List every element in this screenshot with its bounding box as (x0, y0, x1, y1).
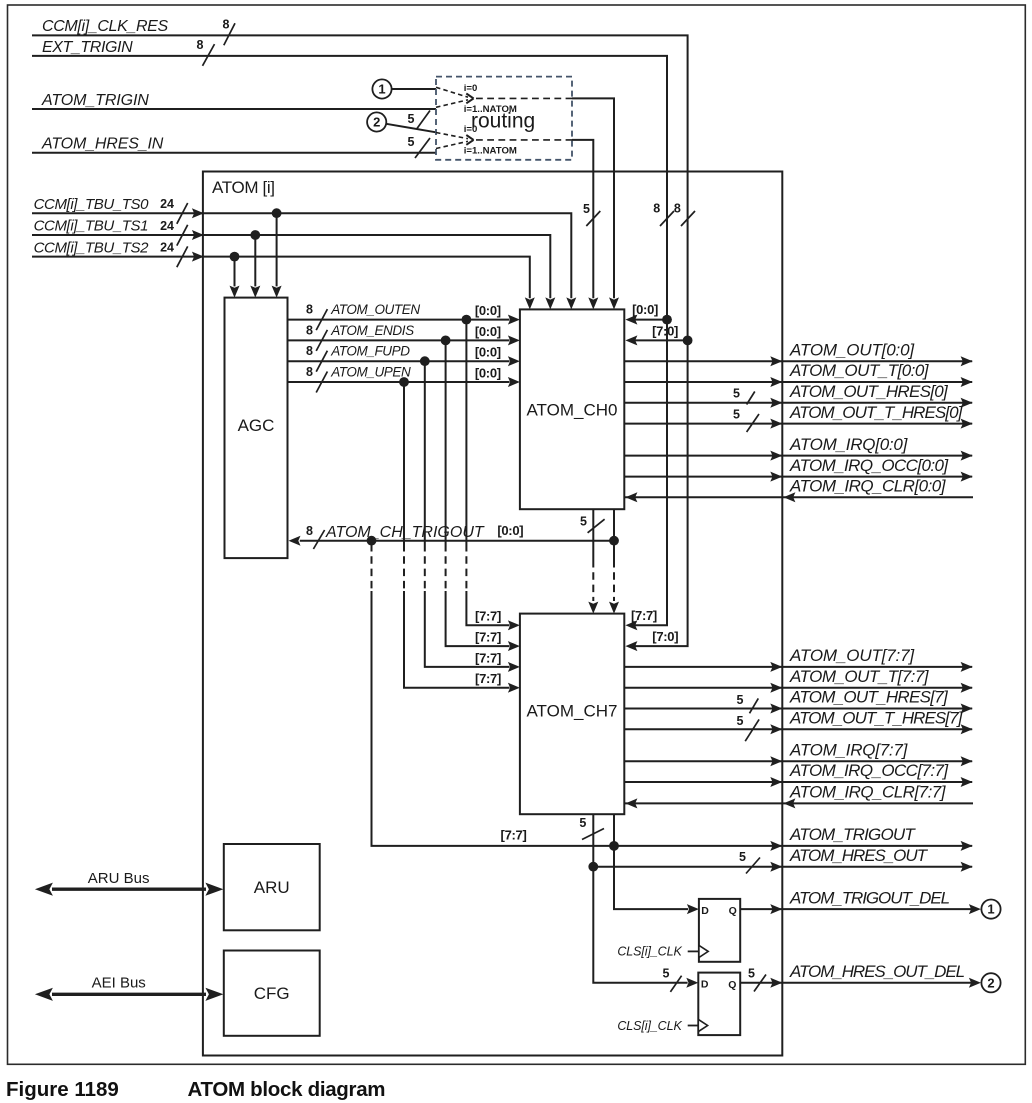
svg-text:ATOM_IRQ_CLR[7:7]: ATOM_IRQ_CLR[7:7] (789, 783, 947, 802)
svg-text:ATOM_OUT_T[7:7]: ATOM_OUT_T[7:7] (789, 667, 930, 686)
svg-text:[7:7]: [7:7] (631, 608, 657, 623)
svg-text:ATOM_IRQ[7:7]: ATOM_IRQ[7:7] (789, 740, 909, 759)
svg-text:ARU: ARU (254, 878, 290, 897)
svg-text:5: 5 (583, 202, 590, 216)
svg-text:ATOM_OUT_T_HRES[0]: ATOM_OUT_T_HRES[0] (789, 403, 964, 422)
svg-text:i=0: i=0 (464, 83, 478, 94)
svg-text:Q: Q (728, 979, 736, 991)
svg-text:8: 8 (197, 38, 204, 52)
svg-text:5: 5 (736, 714, 743, 728)
svg-text:8: 8 (306, 344, 313, 358)
svg-text:D: D (701, 979, 709, 991)
svg-text:5: 5 (736, 693, 743, 707)
svg-text:1: 1 (987, 902, 994, 917)
svg-text:routing: routing (471, 110, 535, 133)
svg-text:ARU Bus: ARU Bus (88, 870, 150, 887)
svg-text:8: 8 (674, 202, 681, 216)
svg-text:24: 24 (160, 219, 174, 233)
svg-text:D: D (701, 905, 709, 917)
svg-text:ATOM_OUT_HRES[0]: ATOM_OUT_HRES[0] (789, 382, 949, 401)
svg-text:AEI Bus: AEI Bus (92, 974, 146, 991)
svg-text:ATOM_IRQ_CLR[0:0]: ATOM_IRQ_CLR[0:0] (789, 477, 947, 496)
svg-text:[7:7]: [7:7] (501, 828, 527, 843)
svg-text:ATOM_OUT_T[0:0]: ATOM_OUT_T[0:0] (789, 361, 930, 380)
svg-text:8: 8 (306, 323, 313, 337)
svg-text:[0:0]: [0:0] (497, 523, 523, 538)
svg-text:ATOM_OUT[0:0]: ATOM_OUT[0:0] (789, 340, 915, 359)
svg-text:ATOM_CH0: ATOM_CH0 (526, 401, 617, 420)
svg-text:ATOM_TRIGOUT: ATOM_TRIGOUT (789, 825, 916, 844)
svg-text:i=1..NATOM: i=1..NATOM (464, 146, 517, 157)
svg-text:[7:0]: [7:0] (652, 629, 678, 644)
svg-text:[0:0]: [0:0] (475, 345, 501, 360)
svg-text:[7:7]: [7:7] (475, 630, 501, 645)
svg-text:ATOM_UPEN: ATOM_UPEN (330, 364, 411, 379)
svg-text:ATOM [i]: ATOM [i] (212, 178, 275, 197)
svg-text:CCM[i]_CLK_RES: CCM[i]_CLK_RES (42, 18, 168, 35)
svg-text:ATOM_HRES_OUT_DEL: ATOM_HRES_OUT_DEL (789, 962, 965, 981)
svg-text:1: 1 (378, 82, 385, 97)
svg-text:5: 5 (579, 816, 586, 830)
svg-text:ATOM_OUT[7:7]: ATOM_OUT[7:7] (789, 646, 915, 665)
svg-text:[0:0]: [0:0] (475, 324, 501, 339)
svg-text:[7:0]: [7:0] (652, 324, 678, 339)
svg-text:5: 5 (739, 850, 746, 864)
svg-text:24: 24 (160, 197, 174, 211)
svg-text:ATOM_OUT_HRES[7]: ATOM_OUT_HRES[7] (789, 688, 949, 707)
svg-text:2: 2 (987, 975, 994, 990)
svg-text:ATOM_IRQ_OCC[7:7]: ATOM_IRQ_OCC[7:7] (789, 761, 949, 780)
svg-text:5: 5 (748, 967, 755, 981)
svg-text:Figure 1189: Figure 1189 (6, 1078, 119, 1101)
svg-text:5: 5 (580, 515, 587, 529)
svg-text:ATOM_HRES_OUT: ATOM_HRES_OUT (789, 846, 929, 865)
svg-text:5: 5 (733, 407, 740, 421)
svg-text:CLS[i]_CLK: CLS[i]_CLK (617, 1019, 682, 1033)
svg-text:Q: Q (729, 905, 737, 917)
svg-text:CLS[i]_CLK: CLS[i]_CLK (617, 945, 682, 959)
svg-text:5: 5 (663, 967, 670, 981)
svg-text:5: 5 (733, 387, 740, 401)
svg-text:8: 8 (653, 202, 660, 216)
svg-text:8: 8 (223, 18, 230, 32)
svg-text:[7:7]: [7:7] (475, 671, 501, 686)
svg-text:ATOM_TRIGOUT_DEL: ATOM_TRIGOUT_DEL (789, 888, 950, 907)
svg-text:ATOM_HRES_IN: ATOM_HRES_IN (41, 136, 164, 153)
svg-text:ATOM_TRIGIN: ATOM_TRIGIN (41, 92, 149, 109)
svg-text:ATOM_IRQ[0:0]: ATOM_IRQ[0:0] (789, 435, 909, 454)
svg-text:[0:0]: [0:0] (475, 303, 501, 318)
svg-text:8: 8 (306, 303, 313, 317)
svg-text:ATOM block diagram: ATOM block diagram (188, 1078, 386, 1101)
svg-text:5: 5 (408, 135, 415, 149)
svg-text:AGC: AGC (238, 416, 275, 435)
svg-text:CCM[i]_TBU_TS1: CCM[i]_TBU_TS1 (34, 218, 148, 235)
svg-text:ATOM_OUT_T_HRES[7]: ATOM_OUT_T_HRES[7] (789, 709, 964, 728)
svg-text:ATOM_ENDIS: ATOM_ENDIS (330, 323, 414, 338)
svg-text:CCM[i]_TBU_TS0: CCM[i]_TBU_TS0 (34, 196, 149, 213)
svg-text:8: 8 (306, 524, 313, 538)
svg-text:[0:0]: [0:0] (632, 302, 658, 317)
svg-text:CCM[i]_TBU_TS2: CCM[i]_TBU_TS2 (34, 239, 149, 256)
svg-text:CFG: CFG (254, 984, 290, 1003)
svg-text:[7:7]: [7:7] (475, 650, 501, 665)
svg-text:5: 5 (408, 112, 415, 126)
svg-text:EXT_TRIGIN: EXT_TRIGIN (42, 39, 133, 56)
svg-text:8: 8 (306, 365, 313, 379)
svg-text:[7:7]: [7:7] (475, 609, 501, 624)
svg-text:ATOM_OUTEN: ATOM_OUTEN (330, 302, 420, 317)
svg-text:ATOM_IRQ_OCC[0:0]: ATOM_IRQ_OCC[0:0] (789, 456, 949, 475)
svg-text:ATOM_FUPD: ATOM_FUPD (330, 344, 410, 359)
svg-text:2: 2 (373, 115, 380, 130)
svg-text:ATOM_CH7: ATOM_CH7 (526, 702, 617, 721)
svg-text:24: 24 (160, 240, 174, 254)
svg-text:[0:0]: [0:0] (475, 365, 501, 380)
